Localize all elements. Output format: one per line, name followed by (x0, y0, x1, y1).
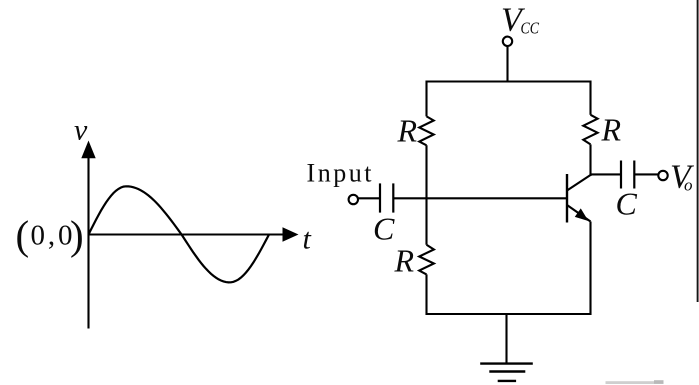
wire top rail (426, 80, 592, 82)
svg-text:0,0: 0,0 (31, 220, 73, 252)
v axis arrowhead (81, 141, 95, 159)
svg-text:R: R (397, 112, 418, 148)
scan artifact right edge line (697, 0, 699, 302)
scan artifact bottom smudge (606, 381, 664, 384)
wire output lead (634, 173, 658, 175)
output terminal circle (658, 171, 667, 180)
resistor R (upper left bias) (419, 116, 433, 145)
resistor R (lower left bias) (419, 245, 434, 275)
label Vo (670, 159, 695, 196)
svg-text:C: C (373, 211, 395, 247)
ground symbol line 2 (489, 370, 525, 372)
svg-text:v: v (74, 114, 88, 147)
transistor Q1 base bar (566, 174, 568, 223)
label (0,0) at origin (16, 212, 84, 258)
VCC terminal circle (503, 37, 512, 46)
wire left branch upper stub (425, 81, 427, 117)
svg-text:t: t (303, 223, 312, 256)
t axis arrowhead (283, 227, 299, 241)
capacitor C (output coupling) plate right (633, 161, 635, 189)
sine wave curve (89, 186, 270, 282)
capacitor C (input coupling) plate right (392, 183, 394, 212)
capacitor C (output coupling) plate left (620, 161, 622, 189)
ground symbol line 3 (498, 380, 516, 382)
transistor Q1 collector lead (567, 175, 591, 191)
wire left branch middle (425, 145, 427, 245)
wire left branch bottom (425, 274, 427, 315)
wire collector drop (589, 144, 591, 176)
wire collector to output capacitor (591, 173, 622, 175)
transistor Q1 emitter arrowhead (575, 208, 592, 224)
resistor R (collector load) (583, 115, 597, 145)
wire bottom rail (426, 313, 592, 315)
wire input lead (358, 197, 380, 199)
svg-text:o: o (684, 175, 693, 194)
svg-text:R: R (601, 111, 622, 147)
svg-text:CC: CC (521, 19, 540, 38)
wire base line from capacitor to transistor base (393, 197, 567, 199)
transistor Q1 emitter lead (567, 205, 591, 222)
input terminal circle (349, 195, 358, 204)
svg-text:(: ( (16, 212, 30, 258)
label VCC (501, 2, 540, 39)
wire ground stem (505, 314, 507, 363)
t axis (horizontal) of input waveform graph (89, 233, 286, 235)
wire VCC stem (506, 46, 508, 81)
wire emitter drop (589, 222, 591, 316)
ground symbol line 1 (480, 362, 533, 364)
svg-text:C: C (616, 186, 638, 222)
wire right branch upper stub (589, 81, 591, 115)
capacitor C (input coupling) plate left (379, 183, 381, 212)
v axis (vertical) of input waveform graph (87, 155, 89, 329)
svg-text:): ) (70, 212, 84, 258)
svg-text:R: R (394, 242, 415, 278)
